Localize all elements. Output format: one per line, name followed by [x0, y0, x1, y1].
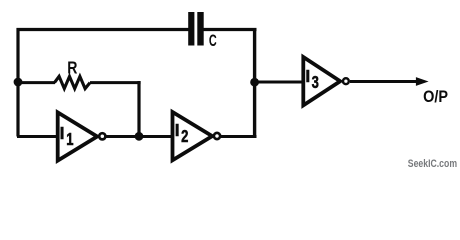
- inverter I1 output bubble: [99, 133, 105, 139]
- svg-text:1: 1: [66, 130, 74, 149]
- wire: I2 output to right rail: [221, 135, 257, 138]
- arrowhead output: [416, 77, 429, 86]
- svg-text:I: I: [305, 66, 310, 86]
- svg-text:I: I: [175, 120, 180, 140]
- wire: right rail vertical: [253, 28, 256, 137]
- wire: output line: [350, 80, 419, 83]
- op-amp / inverter I3 triangle: [303, 57, 340, 105]
- op-amp / inverter I2 triangle: [173, 112, 213, 160]
- op-amp / inverter I1 triangle: [58, 112, 97, 160]
- node: junction dot right rail / I3 input: [250, 78, 259, 87]
- wire: vertical feedback drop to I1 output node: [137, 81, 140, 137]
- resistor R: [55, 76, 91, 88]
- svg-text:3: 3: [312, 73, 319, 92]
- svg-text:I: I: [60, 123, 65, 143]
- svg-text:C: C: [209, 32, 217, 51]
- inverter I3 output bubble: [343, 78, 349, 84]
- svg-text:SeekIC.com: SeekIC.com: [408, 158, 457, 170]
- svg-text:O/P: O/P: [423, 88, 448, 106]
- wire: resistor right lead: [90, 81, 141, 84]
- node: junction dot I1 output: [135, 132, 144, 141]
- wire: resistor left lead: [18, 81, 55, 84]
- node: junction dot left rail / resistor: [14, 78, 23, 87]
- inverter I2 output bubble: [214, 133, 220, 139]
- svg-text:R: R: [67, 59, 78, 78]
- wire: top horizontal left of capacitor: [17, 28, 190, 31]
- wire: top horizontal right of capacitor: [204, 28, 257, 31]
- svg-text:2: 2: [181, 127, 188, 146]
- wire: left rail vertical: [16, 28, 19, 137]
- wire: bottom left into I1 input: [17, 135, 57, 138]
- wire: I1 output to I2 input: [106, 135, 172, 138]
- capacitor C: [188, 12, 204, 46]
- wire: right rail to I3 input: [255, 81, 303, 84]
